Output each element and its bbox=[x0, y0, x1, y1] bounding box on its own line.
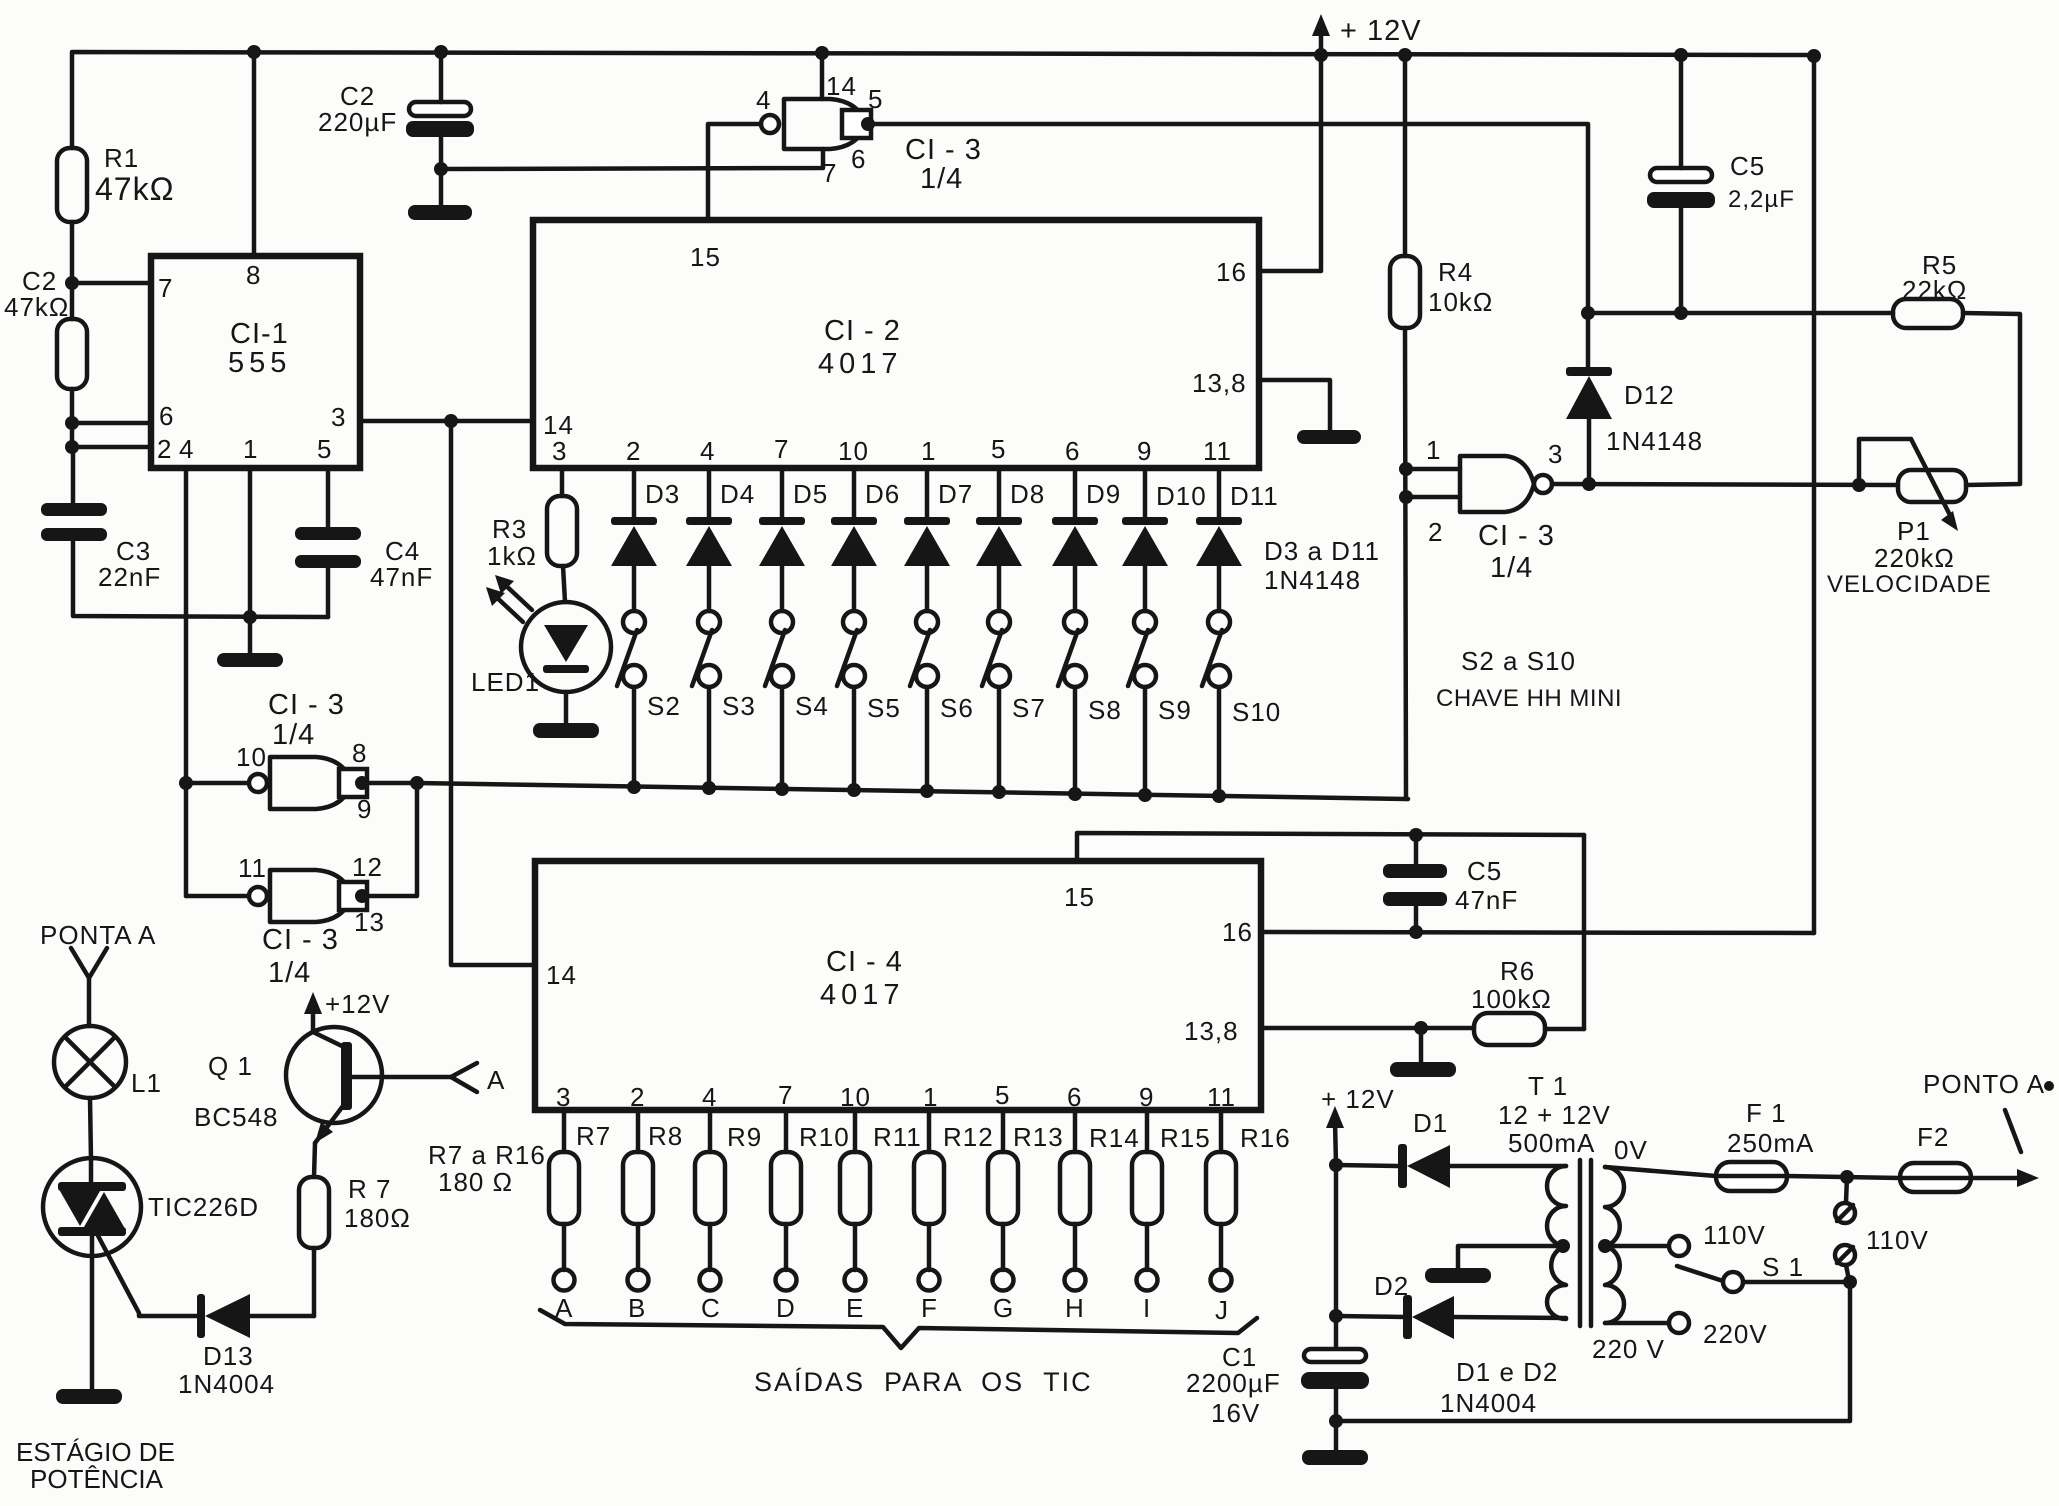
capacitor C2 220uF electrolytic bbox=[318, 81, 474, 137]
node junction bus/gate c bbox=[410, 776, 424, 790]
svg-text:6: 6 bbox=[159, 401, 174, 431]
svg-text:R11: R11 bbox=[873, 1122, 922, 1152]
wire triac gate bbox=[96, 1232, 199, 1316]
node junction gate b output bbox=[355, 776, 369, 790]
resistor R10 bbox=[771, 1110, 850, 1270]
wire R2 to pin6/pin2 nodes bbox=[70, 389, 75, 447]
svg-text:220 V: 220 V bbox=[1592, 1334, 1665, 1364]
terminal G bbox=[993, 1270, 1015, 1324]
wire +12V column D1 to D2 bbox=[1334, 1165, 1339, 1316]
node junction rail/R4 bbox=[1398, 48, 1412, 62]
svg-text:10: 10 bbox=[840, 1082, 871, 1112]
svg-text:CI - 3: CI - 3 bbox=[1478, 520, 1555, 552]
svg-text:14: 14 bbox=[546, 960, 577, 990]
svg-text:2: 2 bbox=[1428, 517, 1443, 547]
node junction bus/S10 bbox=[1212, 789, 1226, 803]
diode D12 1N4148 bbox=[1566, 313, 1703, 484]
svg-text:S7: S7 bbox=[1012, 693, 1046, 723]
switch S5 bbox=[837, 611, 901, 789]
wire rail to C5 bbox=[1679, 55, 1684, 168]
svg-text:CI - 3: CI - 3 bbox=[905, 134, 982, 166]
svg-text:R16: R16 bbox=[1240, 1123, 1291, 1153]
svg-text:I: I bbox=[1143, 1293, 1151, 1323]
svg-text:2: 2 bbox=[157, 434, 172, 464]
node junction bus/S3 bbox=[702, 781, 716, 795]
potentiometer P1 220k VELOCIDADE bbox=[1827, 439, 1992, 598]
svg-text:250mA: 250mA bbox=[1727, 1128, 1814, 1158]
resistor R8 bbox=[623, 1110, 683, 1270]
svg-text:1: 1 bbox=[1426, 435, 1441, 465]
wire R4 to NOR inputs and bus bbox=[1405, 328, 1406, 799]
svg-text:R6: R6 bbox=[1500, 956, 1535, 986]
node junction rail/+12V bbox=[1314, 48, 1328, 62]
svg-text:D7: D7 bbox=[938, 479, 973, 509]
svg-text:+ 12V: + 12V bbox=[1321, 1084, 1395, 1114]
svg-text:47kΩ: 47kΩ bbox=[95, 171, 175, 207]
wire NOR output to P1 bbox=[1552, 484, 1898, 485]
wire rail to R4 bbox=[1403, 55, 1408, 256]
screw terminal upper bbox=[1835, 1177, 1855, 1223]
svg-text:15: 15 bbox=[690, 242, 721, 272]
svg-text:7: 7 bbox=[822, 158, 837, 188]
triac TIC226D bbox=[43, 1158, 259, 1389]
diode D4 bbox=[686, 468, 755, 611]
terminal 220V tap bbox=[1605, 1313, 1768, 1349]
resistor R3 1k bbox=[487, 496, 577, 571]
wire LED1 to ground bbox=[564, 692, 569, 723]
svg-text:15: 15 bbox=[1064, 882, 1095, 912]
wire C4 to bottom node line bbox=[326, 568, 331, 617]
svg-text:10: 10 bbox=[236, 742, 267, 772]
svg-text:11: 11 bbox=[1203, 436, 1232, 466]
svg-text:D5: D5 bbox=[793, 479, 828, 509]
svg-text:100kΩ: 100kΩ bbox=[1471, 984, 1552, 1014]
switch S2 bbox=[617, 611, 681, 786]
diode D10 bbox=[1122, 468, 1207, 611]
svg-text:R15: R15 bbox=[1160, 1123, 1211, 1153]
svg-text:D: D bbox=[776, 1293, 796, 1323]
svg-text:4: 4 bbox=[756, 85, 771, 115]
svg-text:2: 2 bbox=[626, 436, 641, 466]
node junction pin6 bbox=[65, 416, 79, 430]
wire gate input4 to CI-2 pin15 bbox=[708, 124, 761, 220]
svg-text:110V: 110V bbox=[1703, 1220, 1766, 1250]
svg-text:S4: S4 bbox=[795, 691, 829, 721]
node junction pin13,8/ground bbox=[1414, 1021, 1428, 1035]
wire 555 pin8 to rail bbox=[252, 52, 257, 256]
wire CI-4 pin14 feed bbox=[451, 421, 535, 965]
svg-text:9: 9 bbox=[1137, 436, 1152, 466]
resistor R1 47k bbox=[57, 143, 175, 222]
lamp L1 bbox=[54, 1026, 162, 1098]
node junction D2 bbox=[1329, 1309, 1343, 1323]
label R7 a R16 180 bbox=[428, 1140, 546, 1197]
svg-text:S6: S6 bbox=[940, 693, 974, 723]
wire C5b to pin15 line bbox=[1414, 835, 1419, 864]
svg-text:3: 3 bbox=[331, 402, 346, 432]
capacitor C5 2.2uF electrolytic bbox=[1647, 151, 1795, 213]
diode D3 bbox=[611, 468, 680, 611]
resistor R6 100k bbox=[1471, 956, 1552, 1045]
switch S10 bbox=[1202, 611, 1281, 796]
diode D2 1N4004 bbox=[1336, 1271, 1566, 1339]
resistor R15 bbox=[1132, 1110, 1211, 1270]
svg-text:1N4004: 1N4004 bbox=[1440, 1388, 1537, 1418]
svg-text:CI - 3: CI - 3 bbox=[262, 924, 339, 956]
svg-text:D4: D4 bbox=[720, 479, 755, 509]
node junction pin2 bbox=[65, 440, 79, 454]
svg-text:1N4148: 1N4148 bbox=[1264, 565, 1361, 595]
svg-text:S 1: S 1 bbox=[1762, 1252, 1804, 1282]
ground under C2 bbox=[408, 205, 472, 220]
wire CI-4 pin13,8 to R6 bbox=[1261, 1026, 1474, 1031]
svg-text:180 Ω: 180 Ω bbox=[438, 1167, 513, 1197]
svg-text:S2 a S10: S2 a S10 bbox=[1461, 646, 1576, 676]
svg-text:S5: S5 bbox=[867, 693, 901, 723]
node junction S1/return bbox=[1843, 1275, 1857, 1289]
terminal D bbox=[776, 1270, 797, 1324]
svg-text:7: 7 bbox=[774, 434, 789, 464]
wire Q1 base to A bbox=[352, 1075, 451, 1080]
wire NOR input2 bbox=[1406, 495, 1460, 500]
node PONTO A label bbox=[1923, 1069, 2054, 1152]
capacitor C1 2200uF 16V bbox=[1186, 1316, 1369, 1450]
diode D7 bbox=[904, 468, 973, 611]
wire NOR input1 bbox=[1406, 467, 1460, 472]
wire L1 to triac bbox=[90, 1098, 91, 1160]
diode D6 bbox=[831, 468, 900, 611]
svg-text:CI-1: CI-1 bbox=[230, 318, 289, 350]
svg-text:4017: 4017 bbox=[818, 348, 903, 380]
power +12V arrow at Q1 bbox=[304, 989, 390, 1019]
svg-text:R7 a R16: R7 a R16 bbox=[428, 1140, 546, 1170]
svg-text:C: C bbox=[701, 1293, 721, 1323]
terminal A bbox=[554, 1270, 575, 1324]
wire C2 to gnd node bbox=[439, 137, 444, 205]
node PONTA A antenna bbox=[40, 920, 156, 1026]
wire F1 to F2 bbox=[1787, 1176, 1900, 1178]
transistor Q1 BC548 bbox=[194, 1006, 382, 1143]
node junction bus/S7 bbox=[992, 785, 1006, 799]
svg-text:10: 10 bbox=[838, 436, 869, 466]
terminal C bbox=[700, 1270, 721, 1324]
switch S1 bbox=[1677, 1252, 1850, 1292]
ground under 555 pin1 bbox=[217, 653, 283, 667]
svg-text:555: 555 bbox=[228, 347, 291, 379]
wire +12V top rail bbox=[72, 52, 1814, 148]
resistor R11 bbox=[840, 1110, 922, 1270]
node junction bus/S2 bbox=[627, 780, 641, 794]
svg-text:+12V: +12V bbox=[325, 989, 390, 1019]
resistor R13 bbox=[988, 1110, 1064, 1270]
wire 555 pin5 to C4 bbox=[326, 468, 331, 527]
gate U3B CI-3 1/4 (pins 10,8,9) bbox=[236, 689, 372, 824]
node junction +12V/D1 bbox=[1329, 1158, 1343, 1172]
wire C3 to bottom node line bbox=[73, 541, 328, 617]
resistor R7 180 at Q1 bbox=[299, 1143, 411, 1316]
svg-text:11: 11 bbox=[1207, 1082, 1236, 1112]
svg-text:ESTÁGIO DE: ESTÁGIO DE bbox=[16, 1437, 175, 1467]
node junction NOR output/D12 bbox=[1582, 477, 1596, 491]
switch S4 bbox=[765, 611, 829, 788]
label S2 a S10 CHAVE HH MINI bbox=[1436, 646, 1622, 712]
node junction C1/bottom wire bbox=[1329, 1414, 1343, 1428]
svg-text:CI - 2: CI - 2 bbox=[824, 315, 901, 347]
wire node line to R5 bbox=[1588, 311, 1893, 316]
node junction pin4/gate b input bbox=[179, 776, 193, 790]
svg-text:500mA: 500mA bbox=[1508, 1128, 1595, 1158]
svg-text:SAÍDAS PARA OS TIC: SAÍDAS PARA OS TIC bbox=[754, 1367, 1093, 1397]
wire R5 to P1 right bbox=[1963, 313, 2020, 485]
terminal E bbox=[845, 1270, 866, 1324]
svg-text:2: 2 bbox=[630, 1082, 645, 1112]
node junction primary centre tap bbox=[1556, 1239, 1570, 1253]
node junction gate c output bbox=[355, 889, 369, 903]
wire return S1 to C1 bbox=[1336, 1282, 1850, 1421]
wire C5 to node line bbox=[1679, 208, 1684, 313]
svg-text:5: 5 bbox=[995, 1080, 1010, 1110]
node junction pin3/CI-4 feed bbox=[444, 414, 458, 428]
svg-text:S10: S10 bbox=[1232, 697, 1281, 727]
node junction bus/S4 bbox=[775, 782, 789, 796]
svg-text:1/4: 1/4 bbox=[920, 163, 963, 195]
svg-text:10kΩ: 10kΩ bbox=[1428, 287, 1493, 317]
node junction NOR input2 bbox=[1399, 490, 1413, 504]
fuse F1 250mA bbox=[1716, 1098, 1814, 1191]
wire centre tap to ground bbox=[1458, 1246, 1563, 1268]
svg-text:16V: 16V bbox=[1211, 1398, 1260, 1428]
svg-text:4: 4 bbox=[179, 434, 194, 464]
svg-text:R13: R13 bbox=[1013, 1122, 1064, 1152]
svg-text:R12: R12 bbox=[943, 1122, 994, 1152]
node A branch at Q1 base bbox=[451, 1063, 505, 1095]
diode D1 1N4004 bbox=[1336, 1108, 1566, 1188]
svg-text:Q 1: Q 1 bbox=[208, 1051, 253, 1081]
svg-text:14: 14 bbox=[826, 71, 857, 101]
svg-text:16: 16 bbox=[1222, 917, 1253, 947]
svg-text:D3: D3 bbox=[645, 479, 680, 509]
ground CI-2 pin13,8 bbox=[1297, 430, 1361, 444]
capacitor C5 47nF bbox=[1383, 856, 1518, 915]
diode D13 1N4004 bbox=[178, 1294, 314, 1399]
gate U3C CI-3 1/4 (pins 11,12,13) bbox=[238, 852, 385, 989]
svg-text:L1: L1 bbox=[131, 1068, 162, 1098]
svg-text:4017: 4017 bbox=[820, 979, 905, 1011]
wire C5b to pin16 line bbox=[1414, 906, 1419, 932]
capacitor C4 47nF bbox=[295, 527, 433, 592]
power +12V arrow top bbox=[1312, 14, 1422, 56]
svg-text:7: 7 bbox=[778, 1080, 793, 1110]
svg-text:P1: P1 bbox=[1897, 516, 1931, 546]
svg-text:4: 4 bbox=[702, 1082, 717, 1112]
svg-text:7: 7 bbox=[158, 273, 173, 303]
svg-text:2,2µF: 2,2µF bbox=[1728, 186, 1795, 213]
svg-text:F 1: F 1 bbox=[1746, 1098, 1787, 1128]
wire CI-4 pin15 to right column bbox=[1077, 833, 1584, 861]
node junction P1 wiper bbox=[1852, 478, 1866, 492]
svg-text:LED1: LED1 bbox=[471, 667, 540, 697]
svg-text:1/4: 1/4 bbox=[1490, 552, 1533, 584]
wire right column pin15 to R6 bbox=[1582, 835, 1587, 1029]
switch S9 bbox=[1128, 611, 1192, 794]
op-amp IC CI-1 555 box bbox=[151, 256, 360, 468]
wire gate pin14 to rail bbox=[820, 53, 825, 99]
node junction C5 bottom bbox=[1674, 306, 1688, 320]
svg-text:2200µF: 2200µF bbox=[1186, 1368, 1281, 1398]
svg-text:12 + 12V: 12 + 12V bbox=[1498, 1100, 1611, 1130]
diode D5 bbox=[759, 468, 828, 611]
node junction C2/gnd/gate pin7 bbox=[434, 162, 448, 176]
diode D9 bbox=[1052, 468, 1121, 611]
svg-text:D3 a D11: D3 a D11 bbox=[1264, 536, 1380, 566]
capacitor C3 22nF bbox=[41, 503, 161, 592]
node junction rail/C5 bbox=[1674, 48, 1688, 62]
wire R1 to pin7 node bbox=[70, 222, 75, 283]
svg-text:H: H bbox=[1065, 1293, 1085, 1323]
svg-text:R10: R10 bbox=[799, 1122, 850, 1152]
wire F2 to PONTO A arrow bbox=[1971, 1169, 2039, 1187]
ground under C1 bbox=[1302, 1450, 1368, 1465]
svg-text:R4: R4 bbox=[1438, 257, 1473, 287]
wire gate c input bbox=[186, 894, 249, 899]
svg-text:D11: D11 bbox=[1230, 481, 1279, 511]
terminal F bbox=[919, 1270, 940, 1324]
node junction bus/S9 bbox=[1138, 788, 1152, 802]
svg-text:D13: D13 bbox=[203, 1341, 254, 1371]
wire CI-4 pin16 to +12V column bbox=[1261, 932, 1814, 933]
svg-text:110V: 110V bbox=[1866, 1225, 1929, 1255]
ground at centre tap bbox=[1425, 1268, 1491, 1283]
label D1 e D2 1N4004 bbox=[1440, 1357, 1558, 1418]
svg-text:F: F bbox=[921, 1293, 938, 1323]
fuse F2 bbox=[1900, 1122, 1971, 1192]
svg-text:1/4: 1/4 bbox=[272, 719, 315, 751]
svg-text:11: 11 bbox=[238, 853, 267, 883]
svg-text:1N4148: 1N4148 bbox=[1606, 426, 1703, 456]
svg-text:F2: F2 bbox=[1917, 1122, 1949, 1152]
svg-text:3: 3 bbox=[556, 1082, 571, 1112]
svg-text:1/4: 1/4 bbox=[268, 957, 311, 989]
node junction bus/S6 bbox=[920, 784, 934, 798]
svg-text:C5: C5 bbox=[1467, 856, 1502, 886]
resistor R7 bbox=[549, 1110, 611, 1270]
svg-text:5: 5 bbox=[991, 434, 1006, 464]
svg-text:180Ω: 180Ω bbox=[344, 1203, 411, 1233]
resistor R2 (labelled C2 47k) bbox=[4, 266, 87, 389]
svg-text:PONTA A: PONTA A bbox=[40, 920, 156, 950]
svg-text:4: 4 bbox=[700, 436, 715, 466]
switch S6 bbox=[910, 611, 974, 790]
terminal I bbox=[1137, 1270, 1158, 1324]
svg-text:13: 13 bbox=[354, 907, 385, 937]
svg-text:R3: R3 bbox=[492, 514, 527, 544]
node junction C5b/pin15 line bbox=[1409, 828, 1423, 842]
svg-text:220V: 220V bbox=[1703, 1319, 1768, 1349]
gate U3A CI-3 1/4 (pins 4,14,5,6,7) bbox=[756, 71, 982, 195]
wire 555 pin1 down bbox=[248, 468, 253, 653]
node junction rail right corner bbox=[1807, 49, 1821, 63]
svg-text:R14: R14 bbox=[1089, 1123, 1140, 1153]
svg-text:5: 5 bbox=[868, 84, 883, 114]
resistor R14 bbox=[1060, 1110, 1140, 1270]
wire node to ground bbox=[1419, 1028, 1424, 1062]
svg-text:VELOCIDADE: VELOCIDADE bbox=[1827, 571, 1992, 598]
diode D11 bbox=[1196, 468, 1279, 611]
node junction NOR input1 bbox=[1399, 462, 1413, 476]
wire to gate b input bbox=[186, 781, 249, 786]
node junction D12 top bbox=[1581, 306, 1595, 320]
svg-text:8: 8 bbox=[352, 738, 367, 768]
svg-text:S8: S8 bbox=[1088, 695, 1122, 725]
svg-text:16: 16 bbox=[1216, 257, 1247, 287]
svg-text:S2: S2 bbox=[647, 691, 681, 721]
node junction rail/gate pin14 bbox=[815, 46, 829, 60]
wire gate output to D12 column bbox=[868, 124, 1588, 313]
svg-text:R9: R9 bbox=[727, 1122, 762, 1152]
resistor R12 bbox=[914, 1110, 994, 1270]
svg-text:R 7: R 7 bbox=[348, 1174, 391, 1204]
screw terminal lower 110V bbox=[1835, 1225, 1929, 1280]
node junction gate output pin5 bbox=[861, 117, 875, 131]
svg-text:D2: D2 bbox=[1374, 1271, 1409, 1301]
svg-text:R7: R7 bbox=[576, 1121, 611, 1151]
wire secondary top to F1 bbox=[1605, 1167, 1716, 1176]
power +12V arrow at supply bbox=[1321, 1084, 1395, 1164]
svg-text:T 1: T 1 bbox=[1528, 1071, 1568, 1101]
svg-text:6: 6 bbox=[1065, 436, 1080, 466]
wire CI-2 pin3 to R3 bbox=[560, 468, 565, 496]
svg-text:CHAVE HH MINI: CHAVE HH MINI bbox=[1436, 685, 1622, 712]
svg-text:12: 12 bbox=[352, 852, 383, 882]
wire node to 555 pin7 bbox=[72, 281, 151, 286]
switch S3 bbox=[692, 611, 756, 787]
transformer T1 12+12V 500mA bbox=[1498, 1071, 1665, 1364]
node junction bus/S5 bbox=[847, 783, 861, 797]
switch S7 bbox=[982, 611, 1046, 791]
wire switch bus (gate b output to R4 column) bbox=[362, 783, 1408, 799]
terminal H bbox=[1065, 1270, 1086, 1324]
wire node to C3 bbox=[71, 447, 76, 503]
ground under triac ESTAGIO DE POTENCIA bbox=[16, 1389, 175, 1494]
node junction F1/screw bbox=[1840, 1170, 1854, 1184]
node junction C5b top bbox=[1409, 925, 1423, 939]
node junction pin1/C3/C4 bbox=[243, 610, 257, 624]
IC CI-4 4017 box bbox=[535, 861, 1261, 1110]
ground under LED1 bbox=[533, 723, 599, 738]
svg-text:1: 1 bbox=[923, 1082, 938, 1112]
svg-text:E: E bbox=[846, 1293, 864, 1323]
svg-text:R1: R1 bbox=[104, 143, 139, 173]
svg-text:47kΩ: 47kΩ bbox=[4, 292, 69, 322]
svg-text:D9: D9 bbox=[1086, 479, 1121, 509]
node junction rail/pin8 bbox=[247, 45, 261, 59]
svg-text:A: A bbox=[487, 1065, 505, 1095]
wire rail to C2 bbox=[439, 52, 444, 102]
svg-text:0V: 0V bbox=[1614, 1135, 1648, 1165]
svg-text:C5: C5 bbox=[1730, 151, 1765, 181]
svg-text:5: 5 bbox=[317, 434, 332, 464]
gate U3D CI-3 1/4 NOR (pins 1,2,3) bbox=[1426, 435, 1563, 584]
svg-text:D10: D10 bbox=[1156, 481, 1207, 511]
svg-text:220µF: 220µF bbox=[318, 107, 397, 137]
svg-text:22nF: 22nF bbox=[98, 562, 161, 592]
wire node to 555 pin6 bbox=[72, 421, 151, 426]
wire 555 pin4 down to gates bbox=[184, 468, 189, 896]
svg-text:S3: S3 bbox=[722, 691, 756, 721]
wire +12V column to CI-4 pin16 line bbox=[1812, 55, 1817, 933]
svg-text:TIC226D: TIC226D bbox=[148, 1192, 259, 1222]
IC CI-2 4017 box bbox=[533, 220, 1259, 468]
